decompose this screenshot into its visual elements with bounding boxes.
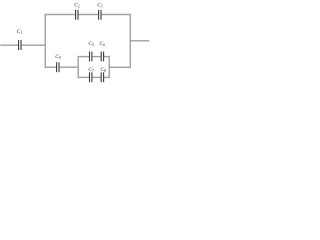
capacitor C4 plates bbox=[57, 62, 59, 72]
wire box top right bbox=[104, 56, 109, 58]
wire top branch left bbox=[45, 14, 75, 16]
wire box bottom right bbox=[104, 76, 109, 78]
svg-text:C6: C6 bbox=[99, 41, 105, 47]
wire box bottom branch bbox=[78, 76, 89, 78]
wire right vertical bbox=[129, 15, 131, 68]
wire box output bbox=[109, 66, 130, 68]
capacitor C2 plates bbox=[76, 10, 78, 20]
wire box bottom middle bbox=[93, 76, 101, 78]
svg-text:C7: C7 bbox=[88, 67, 94, 73]
capacitor C8 plates bbox=[101, 72, 103, 82]
wire box left vertical bbox=[77, 57, 79, 78]
wire box top middle bbox=[93, 56, 101, 58]
svg-text:C5: C5 bbox=[88, 41, 94, 47]
wire box right vertical bbox=[108, 57, 110, 78]
wire C1 to junction bbox=[22, 44, 46, 46]
capacitor C3 plates bbox=[99, 10, 101, 20]
wire C4 to box bbox=[60, 66, 79, 68]
capacitor C5 plates bbox=[90, 52, 92, 62]
wire input left bbox=[1, 44, 18, 46]
svg-text:C2: C2 bbox=[74, 2, 80, 8]
wire box top branch bbox=[78, 56, 89, 58]
svg-text:C4: C4 bbox=[55, 54, 61, 60]
svg-text:C1: C1 bbox=[17, 29, 23, 35]
wire top branch middle bbox=[79, 14, 99, 16]
wire top branch right bbox=[102, 14, 131, 16]
wire lower branch left bbox=[45, 66, 56, 68]
svg-text:C8: C8 bbox=[100, 67, 106, 73]
wire output bbox=[130, 40, 148, 42]
capacitor C1 plates bbox=[19, 40, 21, 50]
capacitor C6 plates bbox=[101, 52, 103, 62]
svg-text:C3: C3 bbox=[97, 2, 103, 8]
wire left vertical riser bbox=[44, 15, 46, 68]
capacitor C7 plates bbox=[90, 72, 92, 82]
